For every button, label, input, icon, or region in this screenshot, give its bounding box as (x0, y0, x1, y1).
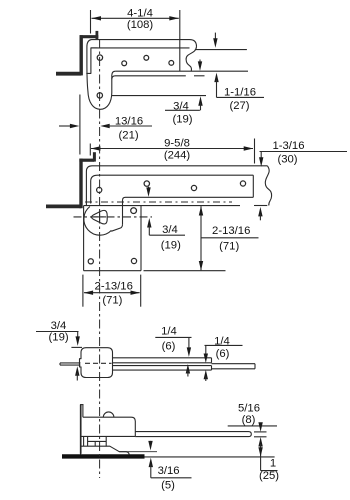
dimension 1/4 second down arrow (205, 345, 207, 355)
dimension 13/16 (21) frame face extension line (79, 95, 81, 155)
view 2 hole plate right (131, 208, 137, 214)
view 4 collar right vertical (105, 436, 107, 446)
view 1 arm hole 1 (122, 61, 127, 66)
view 4 door edge thick vertical (80, 405, 82, 454)
dimension 3/4 (19) view2 up arrow + leader (147, 218, 151, 228)
dimension 1-3/16 (30) leader (260, 151, 348, 153)
view 1 screw hole plate upper (97, 55, 102, 60)
dimension 3/4 view3 up arrow (75, 366, 79, 376)
view 1 screw hole plate lower (97, 93, 102, 98)
view 2 arm hole 1 (144, 181, 149, 186)
view 2 frame tab (93, 152, 96, 161)
view 2 flange ext for 1-3/16 arrow (254, 205, 267, 207)
view 4 collar verticals (83, 436, 85, 446)
view 2 hole on plate left (97, 187, 102, 192)
dimension 3/16 leader (151, 477, 192, 479)
view 2 base plate left edge (83, 206, 85, 271)
dimension 3/4 (19) view3 leader (36, 331, 79, 333)
view 1 arm inner top line (91, 47, 190, 49)
dimension 2-13/16 (71) bottom right extension (140, 275, 142, 307)
view 2 arm hole 3 (240, 181, 245, 186)
view 2 flange line y=205.6 (84, 205, 240, 207)
view 2 plate bottom ext right (144, 270, 226, 272)
view 2 leaf top edge (86, 166, 267, 205)
svg-text:(6): (6) (162, 341, 176, 353)
dimension 2-13/16 (71) vertical dim line (200, 206, 202, 270)
svg-text:(244): (244) (164, 150, 191, 162)
svg-text:1-3/16: 1-3/16 (272, 140, 304, 152)
view 1 frame tab (96, 31, 99, 39)
dimension 9-5/8 (244) dim line (91, 148, 253, 150)
svg-text:1/4: 1/4 (214, 335, 230, 347)
svg-text:(19): (19) (49, 332, 69, 344)
svg-text:(21): (21) (119, 130, 139, 142)
view 2 pivot horizontal dashed centerline (74, 216, 153, 218)
dimension 9-5/8 (244) left extension (89, 144, 91, 156)
view 3 knuckle body with left notch (80, 348, 113, 378)
view 2 break squiggle (265, 166, 271, 206)
dimension 1 (25) leader (261, 470, 278, 472)
view 4 shoe outline (81, 446, 130, 455)
view 2 base plate bottom edge (84, 270, 141, 272)
view 1 arm inner line beyond break (ext for 1-1/16) (196, 49, 247, 51)
view 2 arm hole 2 (191, 185, 196, 190)
svg-text:(5): (5) (161, 479, 175, 491)
dimension 3/16 (5) up arrow + shaft (149, 458, 153, 468)
svg-text:4-1/4: 4-1/4 (127, 7, 153, 19)
dimension 2-13/16 (71) bottom dim line (84, 292, 140, 294)
dimension 5/16 down arrow (260, 425, 262, 427)
svg-text:(71): (71) (219, 241, 239, 253)
svg-text:(30): (30) (277, 153, 297, 165)
view 4 floor thin line ext (145, 456, 275, 458)
view 4 body bottom line (80, 435, 135, 437)
svg-text:2-13/16: 2-13/16 (95, 281, 133, 293)
view 4 floor thick line (62, 454, 145, 458)
dimension 1-3/16 (30) up arrow (258, 207, 262, 217)
dimension 1/4 second up arrow (204, 370, 208, 380)
view 3 bar1 bottom line (113, 362, 212, 364)
dimension 1-1/16 (27) up arrow and leader (214, 73, 218, 83)
view 4 arm bar (135, 432, 251, 437)
svg-text:1/4: 1/4 (161, 325, 177, 337)
dimension 1/4 first up arrow (186, 364, 190, 374)
view 4 arm bottom ext (254, 436, 267, 438)
view 1 leaf left edge and bottom U-curve (87, 40, 116, 110)
dimension 13/16 (21) right arrow and leader (100, 124, 110, 128)
view 2 chamfer from arm corner to blob (111, 224, 122, 231)
svg-text:9-5/8: 9-5/8 (164, 138, 190, 150)
view 4 collar horizontal (88, 440, 107, 442)
dimension 3/16 (5) down arrow (150, 441, 152, 444)
dimension 1/4 first down arrow (188, 337, 190, 349)
svg-text:(8): (8) (242, 414, 256, 426)
dimension 3/4 (19) view1 down arrow (199, 60, 201, 65)
svg-text:(25): (25) (259, 470, 279, 482)
view 2 pivot blob arc (84, 207, 112, 236)
view 4 collar tick (94, 441, 96, 446)
svg-text:(19): (19) (172, 114, 192, 126)
view 2 dashed line above plate (85, 201, 232, 203)
view 2 thick frame profile bottom horizontal (46, 204, 81, 208)
view 1 break squiggle (186, 47, 196, 72)
svg-text:3/4: 3/4 (162, 224, 178, 236)
dimension 1/4 (6) first leader (155, 336, 191, 338)
view 2 plate bottom hole left (88, 259, 93, 264)
view 3 bar2 bottom line (113, 369, 212, 371)
view 3 bar1 top line (113, 357, 212, 359)
svg-text:(71): (71) (102, 295, 122, 307)
dimension 4-1/4 (108) extension right (179, 10, 181, 71)
view 1: top leaf assembly - thick frame profile (56, 72, 81, 76)
dimension 1-3/16 (30) down arrow (260, 152, 262, 159)
view 3 bar2 top line (113, 365, 212, 367)
dimension 4-1/4 (108) line with arrows (92, 17, 179, 19)
view 2 leaf bottom edge with left corner down (123, 197, 254, 224)
view 1 arm bottom edge (ext to right) (116, 70, 248, 72)
svg-text:(27): (27) (229, 100, 249, 112)
view 1 arm hole 2 (144, 55, 149, 60)
dimension 1/4 (6) second leader (205, 344, 243, 346)
view 1 inner step line (frame rabbet) (86, 48, 97, 74)
view 2 cam rounded triangle (92, 210, 108, 224)
dimension 4-1/4 (108) extension left (90, 10, 92, 34)
dimension 2-13/16 (71) vertical leader (201, 237, 259, 239)
dimension 5/16 (8) leader (228, 425, 277, 427)
svg-text:5/16: 5/16 (238, 403, 260, 415)
vertical dashed centerline through all views (99, 40, 101, 479)
svg-text:3/4: 3/4 (173, 101, 189, 113)
svg-text:2-13/16: 2-13/16 (212, 225, 250, 237)
view 2 inner end vertical (252, 175, 254, 197)
dimension 3/4 view3 ext tick (71, 346, 82, 348)
dimension 2-13/16 (71) bottom left extension (82, 275, 84, 307)
view 1 arm lower line (112, 76, 186, 79)
view 4 door edge thin vertical (82, 405, 84, 417)
svg-text:3/4: 3/4 (51, 320, 67, 332)
view 4 shoe surface ext line (119, 451, 157, 453)
view 4 arm top ext (254, 431, 267, 433)
dimension 1 (25) down arrow at floor (258, 447, 262, 457)
view 2 base plate right edge (140, 206, 142, 271)
view 3 bars end caps (211, 358, 213, 363)
view 2 inner top line with corner (91, 175, 254, 203)
view 1 lower leaf edge line (112, 95, 206, 97)
view 4 door edge top cap (80, 404, 84, 406)
dimension 1-1/16 (27) down arrow (214, 33, 216, 42)
svg-text:1-1/16: 1-1/16 (224, 87, 256, 99)
svg-text:(6): (6) (216, 348, 230, 360)
dimension 3/4 (19) view2 down arrow (148, 187, 150, 191)
view 1 leaf top edge with right corner (92, 40, 197, 47)
dimension 3/4 (19) view1 up arrow and leader (198, 96, 202, 106)
dimension 1 (25) arrow shaft (260, 444, 262, 471)
view 4 dome cap (103, 412, 114, 417)
view 3 dashed line through body (85, 362, 112, 364)
view 4 pivot body top and right edge (83, 417, 135, 436)
svg-text:13/16: 13/16 (115, 115, 143, 127)
dimension 5/16 up arrow (258, 437, 262, 447)
view 2 plate bottom hole right (131, 258, 136, 263)
svg-text:3/16: 3/16 (158, 465, 180, 477)
view 3 right thin bar (212, 363, 256, 365)
dimension 13/16 (21) left arrow (59, 125, 72, 127)
view 3 left tail double line (60, 362, 81, 364)
dimension 3/4 view3 down arrow (77, 332, 79, 339)
svg-text:1: 1 (270, 457, 276, 469)
view 2 pivot center cross (94, 216, 107, 218)
svg-text:(108): (108) (127, 19, 154, 31)
dimension 9-5/8 (244) right extension (254, 139, 256, 164)
svg-text:(19): (19) (161, 240, 181, 252)
view 1 arm hole 3 (169, 61, 174, 66)
